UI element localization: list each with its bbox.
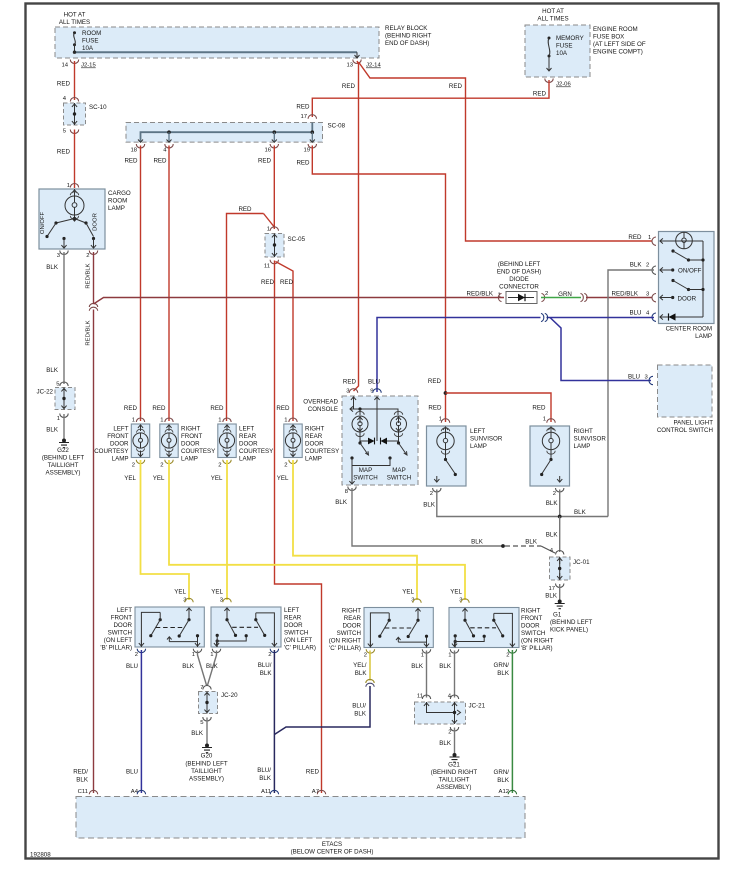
wire BLK center room lamp pin 2 to sunvisor ground rail (608, 262, 654, 517)
svg-text:RED: RED (57, 149, 71, 156)
left rear door switch (211, 607, 281, 647)
wire RED/BLK horizontal run to diode connector (94, 291, 505, 305)
label CENTER ROOM LAMP (666, 326, 712, 341)
cargo lamp pin 3 arc (57, 251, 68, 260)
center room lamp bulb (665, 232, 703, 249)
svg-text:2: 2 (364, 653, 367, 659)
svg-text:G20: G20 (201, 753, 213, 760)
svg-text:BLK: BLK (76, 777, 89, 784)
svg-text:CONTROL SWITCH: CONTROL SWITCH (657, 427, 713, 434)
right sunvisor lamp box (530, 426, 570, 486)
svg-text:10A: 10A (82, 45, 94, 52)
wire RED/BLK to center room lamp pin 3 (586, 291, 652, 298)
svg-text:BLK: BLK (411, 663, 424, 670)
pin 1 of cargo room lamp (67, 183, 79, 189)
right sunvisor lamp pin 2 (553, 488, 564, 497)
connector SC-10 (63, 96, 107, 135)
cargo lamp internal switches (45, 217, 96, 248)
label RIGHT SUNVISOR LAMP (574, 428, 607, 450)
overhead console bottom bracket to pin 8 (349, 456, 391, 484)
svg-text:A12: A12 (499, 789, 509, 795)
label LEFT FRONT DOOR COURTESY LAMP (94, 426, 129, 463)
SC-08 pin 18 arc (130, 144, 144, 154)
connector JC-21 (415, 694, 486, 736)
lamp right rear door courtesy (276, 405, 302, 482)
wire YEL left front courtesy lamp to left front door switch (141, 460, 190, 600)
svg-text:LEFT: LEFT (284, 607, 299, 614)
overhead console pin 8 arc (345, 487, 356, 496)
svg-text:BLU: BLU (126, 663, 138, 670)
svg-text:ON/OFF: ON/OFF (40, 211, 46, 234)
connector JC-22 (36, 382, 75, 423)
wire YEL/BLK right rear door switch pin 2 to connector (353, 651, 370, 681)
svg-text:17: 17 (548, 586, 555, 592)
right rear door switch pin 1 arc (421, 649, 431, 658)
svg-text:J2-15: J2-15 (81, 63, 96, 69)
svg-text:BLK: BLK (206, 663, 219, 670)
connector SC-08 dashed box (126, 123, 346, 143)
connector SC-05 (264, 227, 306, 270)
svg-text:TAILLIGHT: TAILLIGHT (191, 768, 222, 775)
svg-text:JC-20: JC-20 (221, 692, 238, 699)
svg-text:RED: RED (449, 83, 463, 90)
right sunvisor lamp pin 1 (532, 405, 555, 423)
left front door switch pin 2 arc (135, 649, 146, 658)
svg-text:LAMP: LAMP (470, 443, 487, 450)
label RIGHT FRONT DOOR SWITCH (ON RIGHT 'B' PILLAR) (521, 608, 554, 653)
svg-text:BLK: BLK (471, 539, 484, 546)
svg-text:ASSEMBLY): ASSEMBLY) (437, 784, 472, 791)
svg-text:(BEHIND LEFT: (BEHIND LEFT (550, 619, 593, 626)
svg-text:SC-10: SC-10 (89, 104, 107, 111)
svg-text:RED: RED (628, 234, 642, 241)
svg-text:SC-05: SC-05 (288, 236, 306, 243)
svg-text:RED: RED (280, 279, 294, 286)
svg-text:ENGINE ROOM: ENGINE ROOM (593, 26, 638, 33)
label RELAY BLOCK (BEHIND RIGHT END OF DASH) (385, 25, 432, 47)
inline connector on GRN wire (581, 293, 588, 301)
svg-text:PANEL LIGHT: PANEL LIGHT (673, 420, 713, 427)
svg-text:BLK: BLK (439, 663, 452, 670)
overhead console top rail (350, 403, 398, 415)
svg-text:LAMP: LAMP (181, 456, 198, 463)
center room lamp pin 3 arc (652, 294, 666, 302)
pin 14 connector arc (70, 60, 78, 64)
svg-text:(ON RIGHT: (ON RIGHT (329, 638, 362, 645)
svg-text:1: 1 (57, 416, 60, 422)
svg-text:BLU/: BLU/ (258, 662, 272, 669)
overhead console map switch arms (358, 441, 407, 455)
svg-text:A7: A7 (312, 789, 319, 795)
svg-text:RED: RED (124, 158, 138, 165)
svg-text:TAILLIGHT: TAILLIGHT (439, 777, 470, 784)
svg-text:RED: RED (124, 405, 138, 412)
svg-text:2: 2 (430, 491, 433, 497)
svg-text:(ON RIGHT: (ON RIGHT (521, 638, 554, 645)
label OVERHEAD CONSOLE (303, 399, 338, 414)
svg-text:RED: RED (210, 405, 224, 412)
svg-text:END OF DASH): END OF DASH) (497, 269, 541, 276)
overhead console dashed box (342, 396, 418, 485)
ground G22 (42, 439, 85, 477)
left front door switch pin 1 arc (192, 649, 202, 658)
svg-text:'B' PILLAR): 'B' PILLAR) (521, 645, 553, 652)
svg-text:LAMP: LAMP (239, 456, 256, 463)
svg-text:FRONT: FRONT (521, 615, 543, 622)
label LEFT REAR DOOR SWITCH (ON LEFT 'C' PILLAR) (284, 607, 316, 652)
svg-text:RED: RED (238, 206, 252, 213)
svg-text:BLK: BLK (497, 777, 510, 784)
svg-text:YEL: YEL (277, 475, 289, 482)
svg-text:MAP: MAP (359, 467, 372, 474)
pin 13 connector arc (353, 60, 361, 64)
svg-text:(BEHIND LEFT: (BEHIND LEFT (498, 261, 541, 268)
svg-text:COURTESY: COURTESY (94, 448, 128, 455)
label ENGINE ROOM FUSE BOX (593, 26, 646, 56)
overhead console pin 3 arc (343, 379, 358, 404)
wire RED SC-05 pin 11 to ETACS A7 (261, 261, 322, 794)
svg-text:14: 14 (61, 63, 68, 69)
wire RED fuse to SC-10 (57, 61, 75, 100)
svg-text:SWITCH: SWITCH (353, 475, 377, 482)
svg-text:BLK: BLK (355, 670, 368, 677)
label PANEL LIGHT CONTROL SWITCH (657, 420, 713, 435)
svg-text:CONNECTOR: CONNECTOR (499, 284, 539, 291)
svg-text:1: 1 (210, 652, 213, 658)
svg-text:BLK: BLK (546, 532, 559, 539)
svg-text:DIODE: DIODE (509, 276, 529, 283)
svg-text:RED: RED (296, 160, 310, 167)
svg-text:OVERHEAD: OVERHEAD (303, 399, 338, 406)
svg-text:'B' PILLAR): 'B' PILLAR) (100, 645, 132, 652)
svg-text:(ON LEFT: (ON LEFT (284, 637, 312, 644)
svg-text:RIGHT: RIGHT (342, 608, 361, 615)
wire YEL left rear courtesy lamp to left rear door switch (226, 460, 228, 600)
right front door switch pin 3 (450, 589, 469, 604)
svg-text:FUSE BOX: FUSE BOX (593, 34, 624, 41)
cargo lamp pin 2 arc (86, 251, 97, 260)
svg-text:RED: RED (153, 158, 167, 165)
svg-text:RED/: RED/ (73, 769, 88, 776)
svg-text:19: 19 (303, 148, 310, 154)
junction on BLK wire (501, 544, 505, 548)
svg-text:SWITCH: SWITCH (108, 630, 132, 637)
overhead console map lamp bulb 1 (352, 411, 368, 436)
svg-text:COURTESY: COURTESY (305, 448, 339, 455)
junction RED to sunvisor lamps (444, 391, 551, 422)
svg-text:GRN: GRN (558, 291, 572, 298)
cargo room lamp box (39, 189, 105, 249)
svg-text:1: 1 (648, 235, 651, 241)
svg-text:2: 2 (646, 263, 649, 269)
wire YEL right rear courtesy lamp to right rear door switch (293, 460, 417, 600)
svg-text:BLU: BLU (628, 374, 640, 381)
svg-text:DOOR: DOOR (521, 623, 540, 630)
svg-text:DOOR: DOOR (110, 441, 129, 448)
svg-text:BLK: BLK (46, 264, 59, 271)
svg-text:'C' PILLAR): 'C' PILLAR) (329, 645, 361, 652)
svg-text:(BEHIND LEFT: (BEHIND LEFT (185, 761, 228, 768)
center room lamp box (659, 232, 715, 324)
svg-text:BLU/: BLU/ (352, 703, 366, 710)
svg-text:(AT LEFT SIDE OF: (AT LEFT SIDE OF (593, 41, 646, 48)
svg-text:LAMP: LAMP (305, 456, 322, 463)
label RIGHT REAR DOOR COURTESY LAMP (305, 426, 339, 463)
svg-text:RED: RED (152, 405, 166, 412)
svg-text:ROOM: ROOM (82, 30, 101, 37)
wire BLK cargo lamp to JC-22 (46, 252, 64, 384)
center room lamp pin 2 arc (646, 263, 666, 275)
svg-text:2: 2 (448, 730, 451, 736)
svg-text:CENTER ROOM: CENTER ROOM (666, 326, 712, 333)
wire BLU left front door switch to ETACS A4 (126, 650, 141, 795)
center room lamp right internal rail (702, 241, 704, 317)
right rear door switch pin 2 arc (364, 649, 375, 658)
wire BLU center room lamp pin 4 to overhead console pin 9 (377, 310, 654, 393)
svg-text:C11: C11 (78, 789, 88, 795)
svg-text:13: 13 (346, 63, 353, 69)
wire RED/BLK cargo lamp pin 2 down to splice (86, 252, 94, 304)
wire BLK JC-01 to ground G1 (545, 584, 559, 600)
wire BLK sunvisor lamps ground rail (423, 490, 608, 517)
svg-text:SUNVISOR: SUNVISOR (470, 436, 503, 443)
svg-text:DOOR: DOOR (239, 441, 258, 448)
left rear door switch pin 2 arc (268, 649, 278, 658)
wire BLU branch to panel light control switch (550, 318, 651, 381)
svg-text:1: 1 (192, 652, 195, 658)
svg-text:TAILLIGHT: TAILLIGHT (48, 462, 79, 469)
ground G20 (185, 744, 228, 783)
wire BLU/BLK left rear door switch to ETACS A11 (257, 650, 274, 795)
wire RED J2-14 to overhead console pin 3 (342, 61, 359, 391)
wire BLK right front door switch pin 1 to JC-21 (439, 651, 454, 698)
svg-text:RIGHT: RIGHT (181, 426, 200, 433)
wire BLK left front door switch pin 1 to JC-20 (182, 651, 206, 686)
svg-text:CONSOLE: CONSOLE (308, 406, 338, 413)
label (BEHIND LEFT END OF DASH) DIODE CONNECTOR (497, 261, 541, 291)
svg-text:FRONT: FRONT (107, 433, 129, 440)
svg-text:G21: G21 (448, 762, 460, 769)
label DOOR vertical (93, 213, 99, 231)
svg-text:RED: RED (258, 158, 272, 165)
svg-text:YEL: YEL (450, 589, 462, 596)
wire BLK JC-20 to ground G20 (191, 718, 207, 745)
svg-text:BLU: BLU (368, 379, 380, 386)
svg-text:ETACS: ETACS (322, 841, 342, 848)
left sunvisor lamp pin 1 (428, 405, 449, 423)
SC-08 pin 19 arc (303, 144, 316, 154)
svg-text:RED: RED (296, 104, 310, 111)
wire BLK left rear door switch pin 1 to JC-20 (206, 651, 219, 686)
left front door switch (135, 607, 204, 647)
svg-text:BLK: BLK (182, 663, 195, 670)
svg-text:YEL: YEL (211, 589, 223, 596)
svg-text:1: 1 (448, 653, 451, 659)
svg-text:(BEHIND RIGHT: (BEHIND RIGHT (385, 33, 432, 40)
junction BLK rail (558, 515, 562, 519)
svg-text:ALL TIMES: ALL TIMES (537, 16, 568, 23)
SC-08 internal bus bar (141, 123, 315, 143)
svg-text:YEL: YEL (211, 475, 223, 482)
svg-text:HOT AT: HOT AT (64, 12, 86, 19)
right rear door switch pin 3 (402, 589, 421, 604)
inline connector on YEL/BLK wire (366, 679, 374, 686)
svg-text:BLK: BLK (354, 711, 367, 718)
svg-text:BLK: BLK (546, 500, 559, 507)
svg-text:LAMP: LAMP (112, 456, 129, 463)
lamp left rear door courtesy (210, 405, 236, 482)
svg-text:ASSEMBLY): ASSEMBLY) (189, 776, 224, 783)
wire BLK overhead console pin 8 to JC-01 (335, 488, 503, 546)
label LEFT FRONT DOOR SWITCH (ON LEFT 'B' PILLAR) (100, 607, 132, 652)
svg-text:BLU: BLU (629, 310, 641, 317)
svg-text:LAMP: LAMP (108, 205, 125, 212)
svg-text:SWITCH: SWITCH (387, 475, 411, 482)
svg-text:(BELOW CENTER OF DASH): (BELOW CENTER OF DASH) (291, 849, 374, 856)
svg-text:(ON LEFT: (ON LEFT (104, 637, 132, 644)
svg-text:2: 2 (86, 253, 89, 259)
left rear door switch pin 1 arc (210, 649, 220, 658)
svg-text:YEL: YEL (402, 589, 414, 596)
svg-text:G1: G1 (553, 612, 562, 619)
wire RED SC-08 pin 16 to SC-05 pin 1 (258, 146, 274, 230)
svg-text:FUSE: FUSE (82, 38, 99, 45)
svg-text:RED: RED (57, 81, 71, 88)
svg-text:LAMP: LAMP (574, 443, 591, 450)
left rear door switch pin 3 (211, 589, 231, 604)
svg-text:(BEHIND LEFT: (BEHIND LEFT (42, 455, 85, 462)
svg-text:RED/BLK: RED/BLK (86, 263, 92, 288)
relay block bus bar (73, 51, 357, 54)
svg-text:FRONT: FRONT (181, 433, 203, 440)
svg-text:2: 2 (268, 652, 271, 658)
svg-text:1: 1 (67, 183, 70, 189)
svg-text:BLK: BLK (335, 499, 348, 506)
svg-text:2: 2 (506, 653, 509, 659)
center room lamp pin 4 arc (646, 311, 666, 322)
connector JC-01 (548, 548, 590, 592)
svg-text:BLK: BLK (423, 502, 436, 509)
left sunvisor lamp box (427, 426, 467, 486)
svg-text:YEL: YEL (124, 475, 136, 482)
svg-text:CARGO: CARGO (108, 190, 131, 197)
svg-text:RED: RED (306, 769, 320, 776)
value label MEMORY FUSE 10A (556, 35, 584, 57)
svg-text:11: 11 (264, 264, 270, 270)
overhead console map lamp bulb 2 (391, 411, 407, 436)
svg-text:BLK: BLK (46, 367, 59, 374)
svg-text:BLK: BLK (630, 262, 643, 269)
svg-text:LEFT: LEFT (113, 426, 128, 433)
label LEFT REAR DOOR COURTESY LAMP (239, 426, 273, 463)
svg-text:RED: RED (342, 83, 356, 90)
engine room fuse box dashed box (525, 25, 590, 77)
svg-text:ASSEMBLY): ASSEMBLY) (46, 470, 81, 477)
diode connector box (498, 291, 548, 304)
fuse MEMORY FUSE 10A (547, 37, 552, 72)
left sunvisor lamp pin 2 (430, 488, 441, 497)
svg-text:10A: 10A (556, 50, 568, 57)
svg-text:G22: G22 (57, 447, 69, 454)
svg-text:1: 1 (543, 417, 546, 423)
svg-text:COURTESY: COURTESY (181, 448, 215, 455)
pin 17 of SC-08 (300, 114, 316, 120)
wire RED SC-10 to cargo room lamp (57, 130, 75, 189)
wire BLK right rear door switch pin 1 to JC-21 (411, 651, 426, 698)
svg-text:BLK: BLK (525, 539, 538, 546)
svg-text:DOOR: DOOR (93, 213, 99, 231)
wire YEL right front courtesy lamp to right front door switch (169, 460, 465, 600)
wire RED SC-08 pin 19 to sunvisor lamps junction (296, 146, 445, 423)
panel light control switch dashed box (649, 365, 712, 417)
svg-text:BLK: BLK (574, 509, 587, 516)
pin label 13 and net J2-14 (346, 63, 381, 69)
svg-text:RED: RED (428, 378, 442, 385)
label HOT AT ALL TIMES (left) (59, 12, 90, 27)
svg-text:BLK: BLK (191, 730, 204, 737)
svg-text:RED: RED (276, 405, 290, 412)
wire RED J2-06 to SC-08 pin 17 (296, 80, 549, 117)
svg-text:192808: 192808 (30, 852, 51, 859)
svg-text:2: 2 (553, 491, 556, 497)
svg-text:JC-21: JC-21 (469, 703, 486, 710)
svg-text:ROOM: ROOM (108, 198, 127, 205)
svg-text:BLK: BLK (260, 670, 273, 677)
label LEFT SUNVISOR LAMP (470, 428, 503, 450)
svg-text:2: 2 (135, 652, 138, 658)
svg-text:BLU/: BLU/ (257, 767, 271, 774)
svg-text:SWITCH: SWITCH (337, 630, 361, 637)
center room lamp diode at pin 4 (660, 313, 703, 320)
svg-text:DOOR: DOOR (113, 622, 132, 629)
wire RED/BLK splice to ETACS C11 (73, 310, 93, 796)
svg-text:GRN/: GRN/ (494, 769, 510, 776)
ground G1 (550, 600, 593, 634)
svg-text:SWITCH: SWITCH (284, 630, 308, 637)
svg-text:HOT AT: HOT AT (542, 8, 564, 15)
label ETACS (BELOW CENTER OF DASH) (291, 841, 374, 856)
svg-text:GRN/: GRN/ (494, 662, 510, 669)
svg-text:1: 1 (267, 227, 270, 233)
svg-text:LEFT: LEFT (239, 426, 254, 433)
svg-text:ALL TIMES: ALL TIMES (59, 19, 90, 26)
pin 13 arrow inside relay block (355, 52, 360, 58)
svg-text:RED/BLK: RED/BLK (86, 320, 92, 345)
svg-text:SWITCH: SWITCH (521, 630, 545, 637)
right front door switch pin 1 arc (448, 649, 458, 658)
right sunvisor lamp bulb and switch (540, 427, 562, 482)
center room lamp pin 1 arc (652, 237, 666, 245)
lamp right front door courtesy (152, 405, 178, 482)
wire BLK junction to JC-01 (546, 517, 560, 553)
svg-text:BLK: BLK (497, 670, 510, 677)
center room lamp ON/OFF switch (660, 249, 705, 274)
svg-text:FUSE: FUSE (556, 43, 573, 50)
label CARGO ROOM LAMP (108, 190, 131, 212)
overhead console pin 9 arc (368, 379, 381, 404)
connector JC-20 (199, 685, 239, 726)
svg-text:JC-22: JC-22 (36, 389, 53, 396)
svg-text:ENGINE COMPT): ENGINE COMPT) (593, 49, 643, 56)
svg-text:RED: RED (533, 91, 547, 98)
svg-text:MEMORY: MEMORY (556, 35, 584, 42)
overhead console diode pair (360, 397, 399, 445)
svg-text:RED/BLK: RED/BLK (612, 291, 639, 298)
svg-text:YEL: YEL (153, 475, 165, 482)
wire BLK JC-22 to ground G22 (46, 414, 64, 440)
svg-text:DOOR: DOOR (181, 441, 200, 448)
left front door switch pin 3 (174, 589, 193, 604)
